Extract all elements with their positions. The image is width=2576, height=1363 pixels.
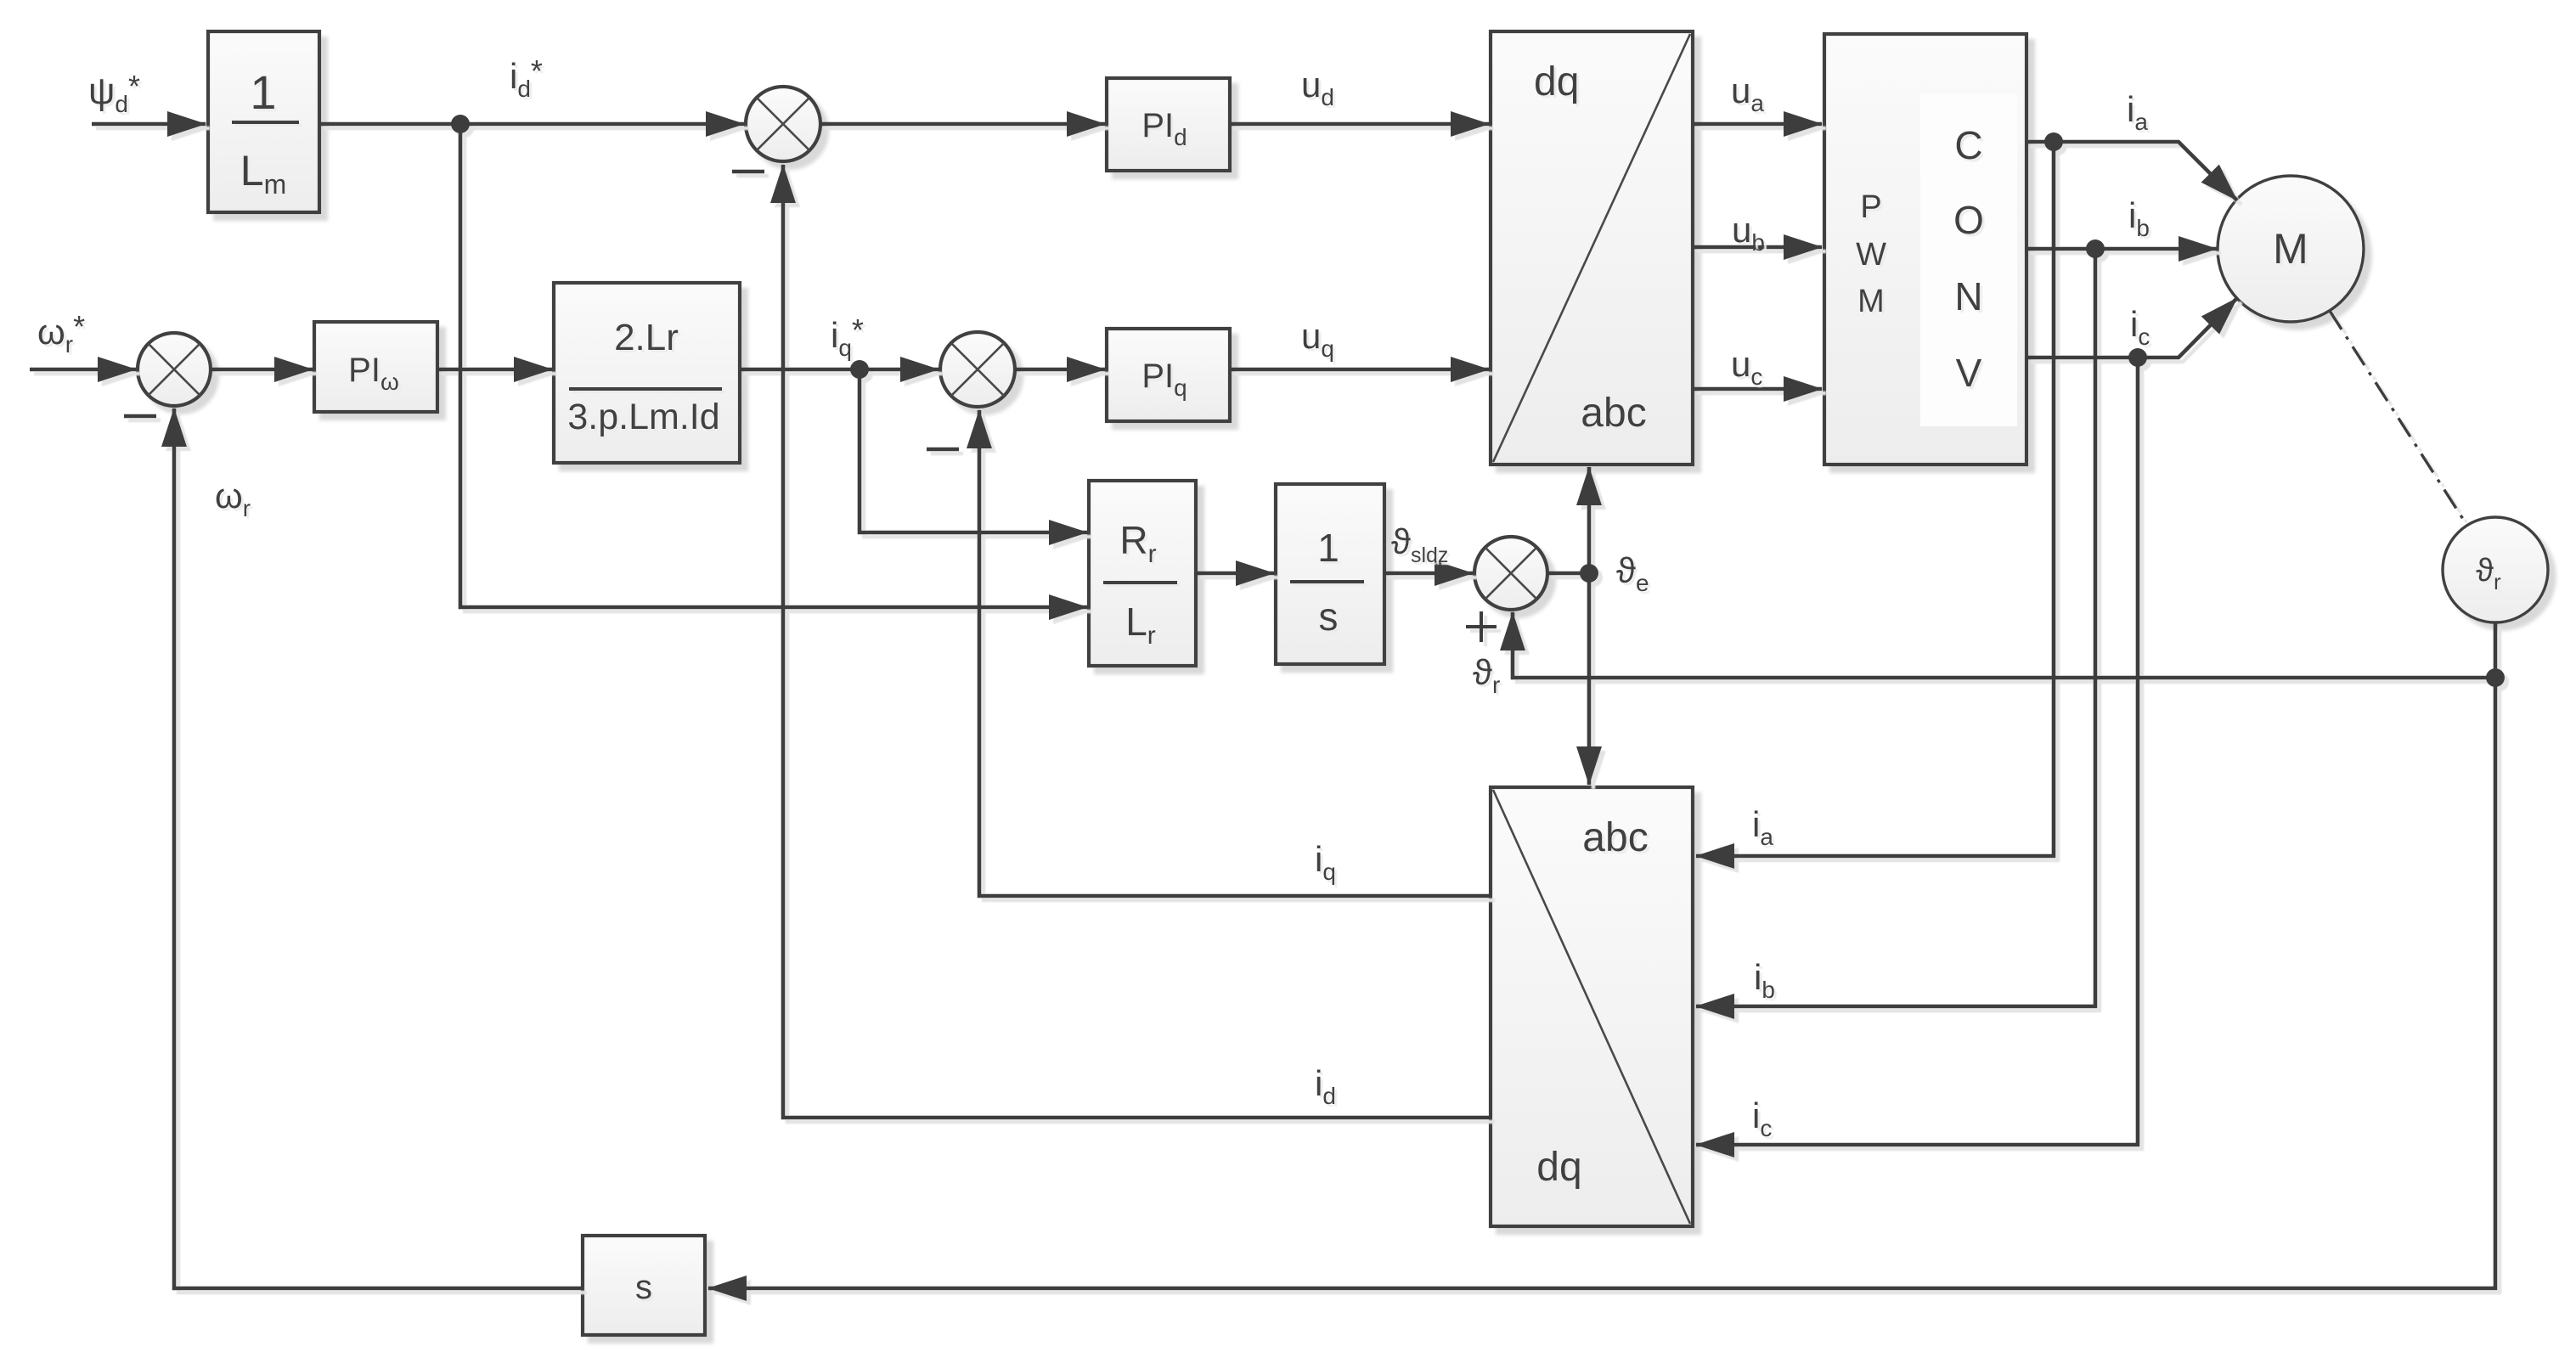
wire ic from PWM to motor M [2026, 298, 2237, 358]
motor M circle [2218, 176, 2364, 322]
wire 2.Lr block output iq* to summing junction S3 [740, 368, 939, 372]
wire ub from dq/abc to PWM [1693, 245, 1822, 250]
block Rr/Lr [1089, 481, 1196, 666]
svg-text:1: 1 [250, 65, 276, 119]
wire S2 output to PId [820, 122, 1105, 127]
summing junction S4 (theta_e = theta_sldz + theta_r) [1474, 537, 1547, 610]
wire ia feedback to abc/dq block [1696, 142, 2054, 856]
svg-text:ϑr: ϑr [1473, 652, 1500, 698]
svg-text:ωr: ωr [215, 476, 251, 521]
node iq* junction dot [850, 360, 869, 379]
svg-text:abc: abc [1581, 391, 1646, 436]
block abc->dq transform [1491, 787, 1693, 1226]
wire PIw output to 2.Lr block [437, 368, 552, 372]
svg-text:M: M [1857, 284, 1885, 319]
wire psi_d* input to 1/Lm [92, 122, 206, 127]
svg-text:P: P [1860, 189, 1881, 225]
svg-text:M: M [2273, 225, 2308, 273]
svg-text:V: V [1956, 351, 1982, 395]
node theta_e junction dot [1580, 564, 1598, 583]
wire S4 output to theta_e node [1547, 572, 1589, 576]
wire PIq output uq to dq/abc block [1230, 368, 1489, 372]
wire PId output ud to dq/abc block [1230, 122, 1489, 127]
svg-text:ia: ia [2127, 89, 2148, 135]
wire iq* branch to Rr/Lr upper input [860, 369, 1087, 532]
wire 1/Lm output to summing junction S2 [319, 122, 744, 127]
wire theta_r feedback to summing junction S4 [1513, 612, 2495, 678]
block PIw (speed PI controller) [314, 322, 437, 412]
summing junction S2 (id error) [746, 87, 820, 161]
node ia junction dot [2044, 132, 2063, 151]
plus sign at S4 [1466, 611, 1497, 642]
svg-text:dq: dq [1536, 1145, 1581, 1190]
wire Rr/Lr output to 1/s [1196, 572, 1274, 576]
block s (speed sensor) [583, 1236, 705, 1335]
svg-text:ic: ic [2130, 304, 2150, 350]
value Rr over Lr text [1103, 518, 1177, 650]
minus sign at S2 [732, 170, 764, 174]
svg-text:ud: ud [1301, 65, 1334, 110]
block PIq (q-axis PI controller) [1107, 329, 1230, 421]
block 1/s integrator [1276, 484, 1384, 664]
wire S3 output to PIq [1015, 368, 1105, 372]
value 2.Lr over 3.p.Lm.Id text [567, 317, 722, 437]
wire uc from dq/abc to PWM [1693, 387, 1822, 391]
svg-text:s: s [635, 1269, 652, 1306]
wire theta_e up into dq/abc block [1587, 467, 1592, 573]
value 1 over s integrator text [1290, 526, 1364, 639]
svg-text:iq*: iq* [831, 313, 864, 361]
svg-text:ψd*: ψd* [88, 69, 140, 117]
wire theta_e down into abc/dq block [1587, 573, 1592, 785]
svg-text:ub: ub [1732, 210, 1765, 256]
block 1/Lm [208, 31, 319, 212]
wire 1/s output theta_sldz to summing junction S4 [1384, 572, 1473, 576]
svg-text:uq: uq [1301, 316, 1334, 362]
minus sign at S1 [124, 414, 156, 419]
svg-text:2.Lr: 2.Lr [614, 317, 679, 358]
svg-text:s: s [1319, 594, 1339, 639]
summing junction S1 (speed error) [138, 333, 211, 406]
summing junction S3 (iq error) [940, 332, 1015, 407]
wire id* branch to Rr/Lr lower input [460, 124, 1087, 607]
svg-text:W: W [1856, 237, 1886, 273]
wire ib feedback to abc/dq block [1696, 249, 2095, 1006]
wire id feedback from abc/dq to summing junction S2 [783, 165, 1491, 1118]
svg-text:ua: ua [1731, 70, 1764, 116]
svg-text:ia: ia [1752, 804, 1773, 850]
wire s block output w_r to summing junction S1 [174, 408, 583, 1288]
node ib junction dot [2086, 239, 2105, 258]
svg-text:ic: ic [1752, 1095, 1772, 1141]
svg-text:abc: abc [1582, 815, 1648, 860]
block PId (d-axis PI controller) [1107, 78, 1230, 171]
svg-text:uc: uc [1731, 344, 1762, 390]
position sensor theta_r circle [2443, 517, 2548, 622]
svg-text:C: C [1954, 123, 1982, 167]
svg-text:ϑsldz: ϑsldz [1391, 521, 1448, 567]
block PWM converter [1824, 34, 2026, 465]
svg-text:dq: dq [1534, 59, 1579, 104]
wire S1 output to PIw [211, 368, 313, 372]
wire w_r* input to summing junction S1 [30, 368, 136, 372]
svg-text:O: O [1953, 198, 1984, 242]
svg-text:N: N [1954, 274, 1982, 318]
svg-text:id*: id* [510, 54, 543, 102]
svg-text:ib: ib [1754, 957, 1775, 1003]
svg-text:ib: ib [2128, 195, 2150, 241]
node id* junction dot [451, 115, 470, 133]
wire ib from PWM to motor M [2026, 247, 2217, 251]
svg-text:3.p.Lm.Id: 3.p.Lm.Id [567, 397, 719, 437]
wire theta_r sensor down and left to s block [708, 622, 2495, 1288]
wire ua from dq/abc to PWM [1693, 122, 1822, 127]
wire iq feedback from abc/dq to summing junction S3 [979, 410, 1491, 896]
block dq->abc transform [1491, 31, 1693, 465]
svg-text:1: 1 [1317, 526, 1339, 570]
mechanical dash-dot link from M to theta_r sensor [2330, 311, 2467, 526]
svg-text:id: id [1315, 1063, 1336, 1109]
node theta_r junction dot [2486, 668, 2505, 687]
svg-text:ϑe: ϑe [1616, 550, 1649, 596]
minus sign at S3 [927, 448, 959, 452]
wire ia from PWM to motor M [2026, 142, 2237, 200]
node ic junction dot [2128, 348, 2147, 367]
svg-text:iq: iq [1315, 839, 1336, 885]
value 1 over Lm in block 1/Lm [232, 65, 299, 200]
svg-text:ωr*: ωr* [37, 309, 85, 358]
block 2.Lr/3.p.Lm.Id [554, 283, 740, 463]
wire ic feedback to abc/dq block [1696, 358, 2138, 1145]
